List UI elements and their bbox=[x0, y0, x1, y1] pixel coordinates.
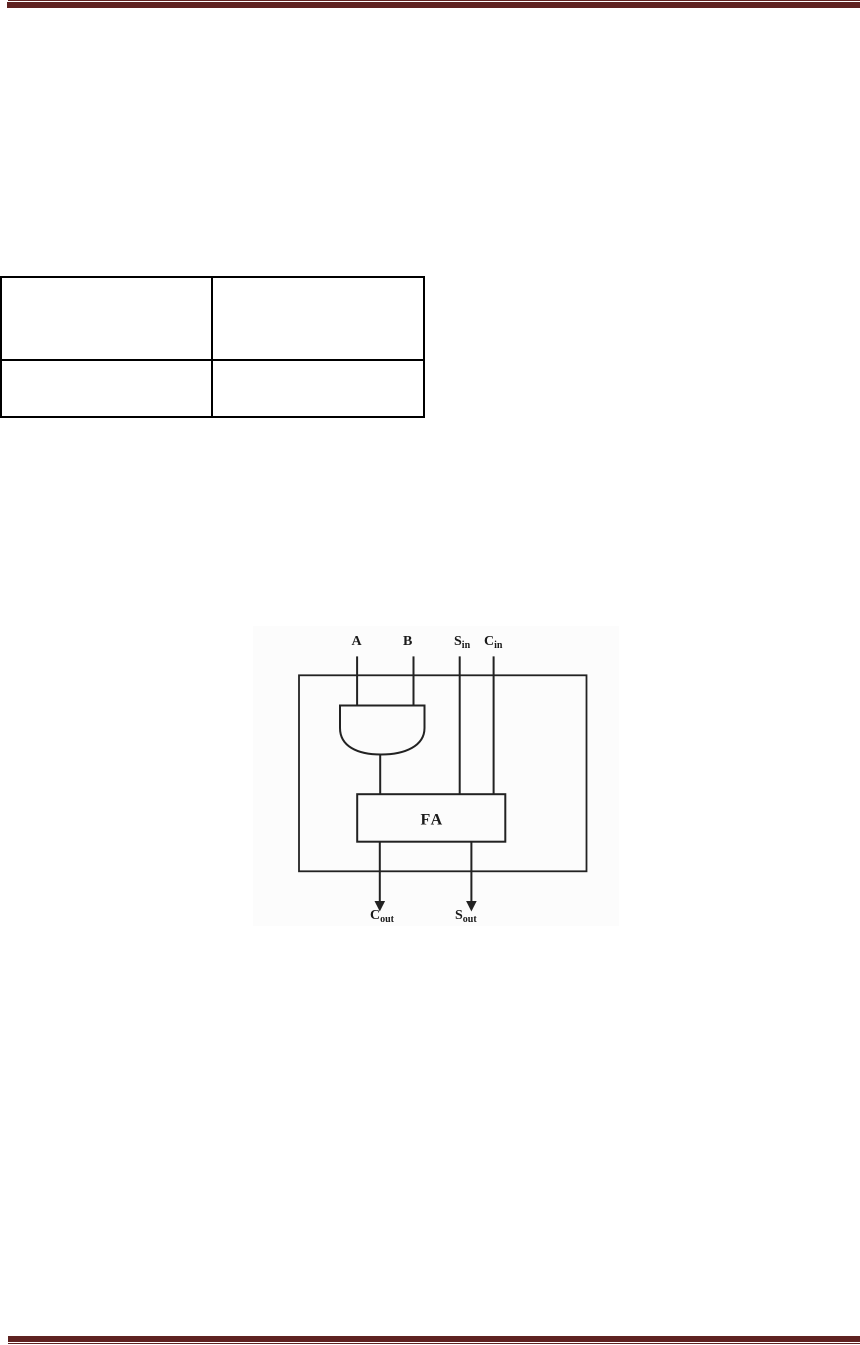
svg-text:B: B bbox=[403, 634, 412, 649]
AND gate (inputs A,B) bbox=[340, 706, 425, 755]
empty 2x2 table bbox=[0, 276, 425, 418]
bottom page border: thin line bbox=[8, 1343, 860, 1345]
arrowhead Cout bbox=[375, 901, 386, 912]
top page border: thin line bbox=[8, 0, 860, 1]
scanned circuit diagram bbox=[253, 626, 619, 926]
svg-text:A: A bbox=[352, 634, 363, 649]
wire Cout (FA to arrow) bbox=[379, 842, 381, 902]
wire input B bbox=[413, 656, 415, 706]
wire input Cin bbox=[493, 656, 495, 794]
svg-text:FA: FA bbox=[421, 812, 444, 829]
wire input A bbox=[356, 656, 358, 706]
top page border: thick bar bbox=[7, 2, 860, 8]
arrowhead Sout bbox=[466, 901, 477, 912]
wire input Sin bbox=[459, 656, 461, 794]
wire Sout (FA to arrow) bbox=[470, 842, 472, 902]
enclosing block outline bbox=[299, 675, 587, 871]
scan backdrop bbox=[253, 626, 619, 926]
full adder FA box bbox=[357, 794, 505, 842]
wire AND output to FA bbox=[379, 755, 381, 795]
bottom page border: thick bar bbox=[8, 1336, 860, 1341]
